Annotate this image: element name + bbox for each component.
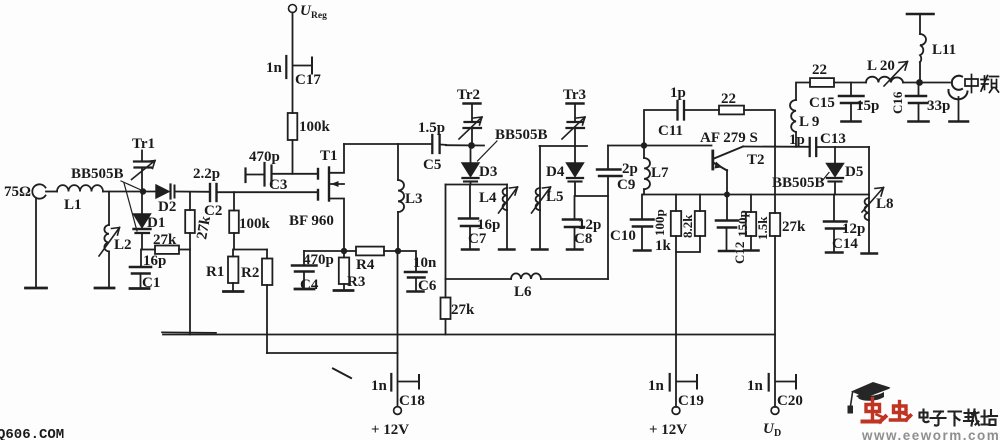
inductor L4 (variable) xyxy=(479,185,518,250)
connector IF output xyxy=(948,76,968,122)
inductor L6 (coupling) xyxy=(511,273,541,300)
svg-text:L11: L11 xyxy=(932,42,956,58)
capacitor C19 1n (feedthrough) + terminal +12V xyxy=(648,374,704,438)
svg-text:L8: L8 xyxy=(876,196,894,212)
label BB505B (D1 callout) xyxy=(71,166,140,231)
wire R4 node down xyxy=(397,251,399,353)
wire D4 bottom to C9 drop xyxy=(575,195,608,197)
svg-text:T2: T2 xyxy=(747,152,765,168)
resistor 100k (gate-1 bias) xyxy=(229,192,270,249)
svg-text:1n: 1n xyxy=(371,378,388,394)
node output xyxy=(916,79,923,86)
node C11/L7 xyxy=(641,142,647,148)
wire T2 base xyxy=(608,145,712,147)
svg-text:C13: C13 xyxy=(820,131,846,147)
svg-text:L 9: L 9 xyxy=(799,114,819,130)
svg-text:150p: 150p xyxy=(735,210,750,237)
svg-text:100k: 100k xyxy=(299,119,331,135)
ground (L2) xyxy=(95,287,114,290)
capacitor C4 470p xyxy=(292,251,344,293)
node resonator-1 top xyxy=(468,142,475,149)
svg-text:22: 22 xyxy=(812,62,827,78)
svg-text:C3: C3 xyxy=(269,177,287,193)
svg-text:L 20: L 20 xyxy=(867,58,895,74)
wire rail right xyxy=(541,278,608,280)
connector 75-ohm input xyxy=(4,184,46,287)
svg-text:D1: D1 xyxy=(147,215,165,231)
svg-text:1k: 1k xyxy=(655,238,672,254)
svg-text:1.5p: 1.5p xyxy=(418,120,445,136)
capacitor C15 15p xyxy=(809,83,879,122)
svg-text:1n: 1n xyxy=(747,378,764,394)
resistor 27k (horizontal, varactor bias) xyxy=(142,232,190,254)
svg-text:C11: C11 xyxy=(658,123,683,139)
svg-text:C16: C16 xyxy=(890,91,905,114)
label BB505B (D3 callout) xyxy=(478,127,548,161)
inductor L7 xyxy=(644,146,669,195)
svg-text:Q606.COM: Q606.COM xyxy=(0,427,64,440)
svg-text:1n: 1n xyxy=(266,60,283,76)
capacitor C6 10n xyxy=(398,251,437,294)
resistor R4 xyxy=(344,247,398,273)
capacitor C11 1p (feedback) xyxy=(644,85,719,146)
svg-text:L5: L5 xyxy=(546,189,564,205)
svg-text:BB505B: BB505B xyxy=(495,127,548,143)
svg-text:BB505B: BB505B xyxy=(71,166,124,182)
stray stroke xyxy=(333,369,351,379)
capacitor C9 2p xyxy=(597,146,638,280)
svg-text:C9: C9 xyxy=(617,177,635,193)
ground (R1) xyxy=(224,290,244,293)
svg-text:T1: T1 xyxy=(320,148,338,164)
wire resonator bottom rail xyxy=(446,278,512,280)
label IF (zhongpin) xyxy=(965,75,999,93)
svg-text:+ 12V: + 12V xyxy=(649,422,687,438)
resistor 1.5k xyxy=(744,195,770,251)
capacitor C17 1n (feedthrough) xyxy=(266,56,321,88)
capacitor C1 16p xyxy=(130,250,166,292)
svg-text:Tr1: Tr1 xyxy=(132,136,155,152)
svg-text:100p: 100p xyxy=(652,209,667,236)
svg-text:D5: D5 xyxy=(845,164,863,180)
wire drain xyxy=(344,143,431,145)
svg-text:470p: 470p xyxy=(303,252,334,268)
svg-text:L4: L4 xyxy=(479,190,497,206)
wire C5 to resonator-1 xyxy=(446,144,484,146)
inductor L2 (variable) xyxy=(99,192,132,288)
node A (antenna node) xyxy=(140,188,146,194)
svg-text:1.5k: 1.5k xyxy=(755,216,770,240)
svg-text:75Ω: 75Ω xyxy=(4,184,31,200)
svg-text:2.2p: 2.2p xyxy=(193,166,220,182)
svg-text:27k: 27k xyxy=(194,214,214,240)
inductor L5 (variable) xyxy=(532,146,564,250)
diode D2 xyxy=(156,185,176,216)
transistor T2 AF279 xyxy=(700,130,765,195)
resistor 100k (gate-2 feed) xyxy=(288,113,331,174)
wire resonator-1 bottom node xyxy=(446,184,508,186)
svg-text:470p: 470p xyxy=(249,149,280,165)
inductor L8 (variable) xyxy=(862,147,894,254)
ground (C4) xyxy=(295,288,314,291)
svg-text:C5: C5 xyxy=(423,157,441,173)
capacitor C16 33p xyxy=(890,83,950,122)
resistor R1 xyxy=(206,250,238,291)
capacitor C20 1n (feedthrough) + terminal U_D xyxy=(747,374,803,439)
wire input node xyxy=(103,191,156,193)
capacitor C7 16p xyxy=(459,185,500,250)
svg-text:R1: R1 xyxy=(206,264,224,280)
node T1 source xyxy=(341,248,347,254)
node T2 emitter xyxy=(724,192,730,198)
svg-text:15p: 15p xyxy=(856,98,879,114)
varactor D1 xyxy=(134,194,166,250)
svg-text:Reg: Reg xyxy=(311,11,327,21)
svg-text:D4: D4 xyxy=(546,164,565,180)
capacitor C12 150p xyxy=(716,195,750,265)
svg-text:www.eeworm.com: www.eeworm.com xyxy=(861,428,1000,440)
svg-text:100k: 100k xyxy=(239,216,271,232)
svg-text:R4: R4 xyxy=(356,257,375,273)
capacitor C14 12p xyxy=(824,195,865,253)
varactor D3 xyxy=(462,146,497,185)
wire D2 to C2 xyxy=(175,191,209,193)
svg-text:BB505B: BB505B xyxy=(772,175,825,191)
wire L20 to IF connector xyxy=(903,82,950,84)
wire bus left doubled stroke xyxy=(162,331,216,334)
trimmer Tr3 xyxy=(562,87,586,146)
svg-text:27k: 27k xyxy=(451,302,475,318)
svg-text:L1: L1 xyxy=(64,197,82,213)
svg-text:27k: 27k xyxy=(782,219,806,235)
svg-text:L3: L3 xyxy=(405,191,423,207)
svg-text:1n: 1n xyxy=(648,378,665,394)
resistor 27k (mixer, on U_D line) xyxy=(770,146,806,407)
capacitor C10 100p xyxy=(610,195,667,251)
svg-text:C14: C14 xyxy=(832,236,858,252)
svg-text:C19: C19 xyxy=(678,393,704,409)
wire R2 bottom link xyxy=(267,352,398,354)
inductor L11 xyxy=(907,14,956,83)
resistor 22 (feedback) xyxy=(719,91,775,146)
resistor 22 (output) xyxy=(810,62,866,87)
svg-text:Tr2: Tr2 xyxy=(457,87,480,103)
svg-text:2p: 2p xyxy=(622,161,638,177)
resistor R2 xyxy=(241,250,272,354)
svg-text:C10: C10 xyxy=(610,228,636,244)
wire gate-1 xyxy=(217,191,317,193)
svg-text:C8: C8 xyxy=(574,231,592,247)
ground (R3) xyxy=(334,289,353,292)
svg-text:R3: R3 xyxy=(347,274,365,290)
capacitor C3 470p xyxy=(246,149,318,193)
svg-text:L2: L2 xyxy=(114,237,132,253)
svg-text:1p: 1p xyxy=(670,85,686,101)
svg-text:R2: R2 xyxy=(241,265,259,281)
svg-text:L6: L6 xyxy=(514,284,532,300)
ground (C1) xyxy=(130,287,149,290)
svg-text:10n: 10n xyxy=(413,255,437,271)
svg-text:C17: C17 xyxy=(295,72,321,88)
wire R1/R2 top xyxy=(234,249,267,251)
varactor D4 xyxy=(546,146,584,196)
trimmer Tr1 xyxy=(132,136,156,188)
svg-text:AF 279 S: AF 279 S xyxy=(700,130,758,146)
svg-text:L7: L7 xyxy=(651,165,669,181)
capacitor C5 1.5p xyxy=(418,120,446,173)
wire resonator-2 top xyxy=(540,145,588,147)
svg-text:1p: 1p xyxy=(789,132,805,148)
inductor L9 xyxy=(790,83,819,147)
wire resonator-1 left drop xyxy=(445,185,447,280)
logo graduation cap xyxy=(848,382,891,414)
svg-text:8.2k: 8.2k xyxy=(680,214,695,238)
resistor 27k (tuning feed, resonator-1) xyxy=(441,279,476,335)
wire bottom tuning bus xyxy=(163,334,775,336)
resistor 8.2k xyxy=(676,195,705,253)
wire T2 collector xyxy=(743,146,809,148)
resistor R3 xyxy=(339,254,366,290)
svg-text:C20: C20 xyxy=(777,393,803,409)
svg-text:D3: D3 xyxy=(479,164,497,180)
MOSFET T1 BF960 xyxy=(289,144,344,251)
wire emitter rail xyxy=(643,194,869,196)
terminal U_Reg xyxy=(289,3,328,21)
svg-text:C12: C12 xyxy=(732,242,747,264)
ground (input connector) xyxy=(26,287,47,290)
svg-text:C4: C4 xyxy=(300,277,319,293)
svg-text:C18: C18 xyxy=(399,393,425,409)
svg-text:C15: C15 xyxy=(809,95,835,111)
svg-text:+ 12V: + 12V xyxy=(371,422,409,438)
capacitor C18 1n (feedthrough) + terminal +12V xyxy=(371,353,425,438)
capacitor C13 1p xyxy=(789,131,869,156)
logo chongchong red characters xyxy=(863,399,911,422)
svg-text:Tr3: Tr3 xyxy=(563,87,586,103)
svg-text:C7: C7 xyxy=(468,231,487,247)
svg-text:BF 960: BF 960 xyxy=(289,213,334,229)
svg-text:22: 22 xyxy=(721,91,736,107)
resistor 1k xyxy=(655,195,681,408)
inductor L3 xyxy=(398,144,423,251)
trimmer Tr2 xyxy=(457,87,482,143)
svg-text:D: D xyxy=(774,428,781,439)
inductor L1 xyxy=(46,185,103,213)
svg-text:D2: D2 xyxy=(158,199,176,215)
svg-text:27k: 27k xyxy=(153,232,177,248)
label BB505B (D5 callout) xyxy=(772,173,829,192)
svg-text:12p: 12p xyxy=(842,221,865,237)
node R4 right xyxy=(395,248,401,254)
resistor 27k (vertical, below D2 node) xyxy=(185,192,214,335)
capacitor C2 2.2p xyxy=(193,166,222,219)
ground (C6) xyxy=(408,290,424,293)
capacitor C8 12p xyxy=(563,196,601,250)
svg-text:33p: 33p xyxy=(927,98,950,114)
logo text dianzi xiazaizhan xyxy=(920,410,998,426)
varactor D5 xyxy=(827,147,864,195)
inductor L20 (variable) xyxy=(866,58,908,86)
wire U_Reg down xyxy=(292,13,294,114)
svg-text:16p: 16p xyxy=(143,253,166,269)
